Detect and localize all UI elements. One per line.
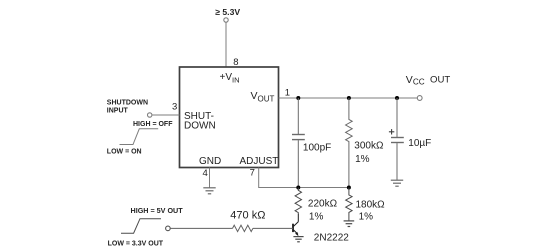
- node ADJ/R220k: [296, 186, 300, 190]
- svg-text:HIGH = 5V OUT: HIGH = 5V OUT: [131, 206, 184, 215]
- wire R470k to Q1 base: [253, 227, 293, 229]
- wire ADJUST net: [259, 168, 349, 188]
- svg-text:DOWN: DOWN: [184, 121, 216, 132]
- svg-text:7: 7: [250, 167, 255, 178]
- shutdown input terminal: [148, 113, 152, 117]
- node VOUT/R300k: [347, 96, 351, 100]
- svg-text:1%: 1%: [355, 154, 370, 165]
- VCC OUT label: [406, 74, 451, 86]
- svg-text:100pF: 100pF: [303, 142, 331, 153]
- R300k value label: [354, 140, 384, 165]
- svg-text:1: 1: [285, 88, 290, 99]
- svg-text:SHUTDOWN: SHUTDOWN: [107, 100, 148, 107]
- svg-text:3: 3: [172, 102, 177, 113]
- node ADJ/R180k: [347, 186, 351, 190]
- base input terminal: [166, 226, 171, 231]
- svg-text:OUT: OUT: [430, 75, 450, 86]
- svg-text:4: 4: [203, 168, 208, 179]
- supply terminal: [224, 18, 228, 22]
- resistor R 220k: [295, 188, 301, 215]
- wire VOUT rail: [279, 97, 418, 99]
- capacitor C2 10µF polarized: [391, 98, 404, 180]
- svg-text:10µF: 10µF: [408, 138, 431, 149]
- node VOUT/C2: [395, 96, 399, 100]
- svg-text:1%: 1%: [309, 212, 324, 223]
- svg-text:LOW = 3.3V OUT: LOW = 3.3V OUT: [108, 240, 164, 247]
- R180k value label: [356, 199, 386, 222]
- wire pin 4 to ground: [209, 168, 211, 188]
- transistor Q1 2N2222: [293, 214, 299, 236]
- shutdown step waveform: [120, 129, 159, 145]
- capacitor C1 100pF: [292, 98, 305, 188]
- ground below pin 4: [203, 188, 215, 194]
- wire supply to pin 8: [225, 22, 227, 67]
- U1 pin label SHUT-DOWN: [184, 111, 216, 132]
- svg-text:470 kΩ: 470 kΩ: [230, 209, 265, 221]
- svg-text:INPUT: INPUT: [107, 107, 129, 114]
- wire shutdown terminal to pin 3: [152, 114, 179, 116]
- resistor R 180k: [346, 188, 352, 221]
- shutdown input annotation: [107, 100, 148, 115]
- svg-text:ADJUST: ADJUST: [240, 156, 279, 167]
- svg-text:300kΩ: 300kΩ: [354, 140, 384, 151]
- svg-text:1%: 1%: [359, 211, 374, 222]
- ground below R180k: [344, 221, 355, 227]
- svg-text:LOW = ON: LOW = ON: [107, 149, 142, 156]
- svg-text:GND: GND: [199, 156, 221, 167]
- wire terminal to R470k: [170, 227, 232, 229]
- C2 plus sign: [389, 129, 394, 134]
- resistor R 470k: [233, 225, 253, 231]
- svg-text:180kΩ: 180kΩ: [356, 199, 386, 210]
- ground below C2: [391, 180, 403, 186]
- svg-text:220kΩ: 220kΩ: [308, 198, 338, 209]
- ground below Q1: [293, 237, 303, 242]
- node VOUT/C1: [296, 96, 300, 100]
- resistor R 300k: [346, 98, 353, 188]
- svg-text:VCC: VCC: [406, 74, 425, 86]
- regulator U1 body: [180, 67, 279, 168]
- svg-text:HIGH = OFF: HIGH = OFF: [133, 121, 173, 128]
- svg-text:2N2222: 2N2222: [314, 232, 349, 243]
- output step waveform: [121, 219, 161, 234]
- svg-text:≥ 5.3V: ≥ 5.3V: [215, 7, 240, 17]
- R220k value label: [308, 198, 338, 222]
- VCC OUT terminal: [417, 96, 422, 101]
